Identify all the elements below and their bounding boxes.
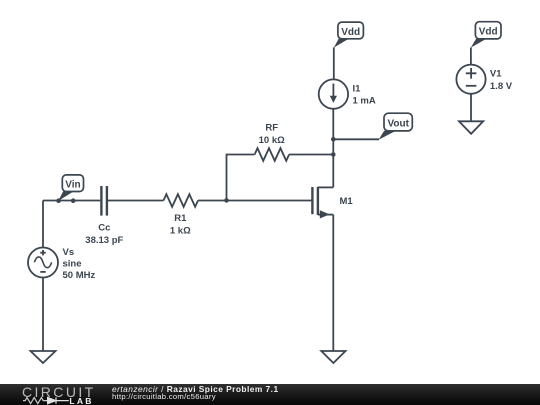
junction dot at RF/output node	[331, 152, 336, 157]
M1 source lead	[318, 214, 333, 216]
transistor M1 (NMOS)	[312, 187, 353, 219]
net flag Vout	[379, 113, 413, 140]
wire: input node down to Vs positive terminal	[42, 201, 44, 248]
current source I1	[319, 79, 376, 108]
wire: output node to Vout flag	[333, 138, 379, 140]
ground (M1 source)	[321, 351, 345, 363]
wire: M1 source down to ground	[332, 215, 334, 351]
junction dot at Vin tap	[56, 198, 61, 203]
wire: M1 drain up to I1 bottom	[332, 109, 334, 187]
Vin flag tail	[58, 191, 74, 201]
svg-text:1 kΩ: 1 kΩ	[170, 225, 191, 236]
capacitor Cc	[85, 186, 163, 246]
voltage source Vs	[28, 247, 95, 281]
M1 source arrow	[320, 210, 330, 218]
svg-text:Vout: Vout	[387, 119, 409, 130]
RF zigzag	[255, 148, 290, 161]
ground (V1)	[459, 121, 483, 134]
wire: V1 bottom to ground	[470, 94, 472, 122]
svg-text:10 kΩ: 10 kΩ	[259, 135, 285, 146]
net flag Vin	[58, 175, 83, 201]
Vout flag tail	[379, 131, 396, 140]
CircuitLab logo	[0, 384, 100, 405]
wire: Vdd flag to V1 top	[470, 48, 472, 65]
Vdd flag box	[338, 22, 364, 39]
Vdd flag tail	[334, 39, 349, 48]
footer credit text	[112, 385, 279, 393]
svg-text:Vin: Vin	[65, 180, 80, 191]
voltage source V1	[456, 65, 512, 94]
svg-text:1 mA: 1 mA	[353, 95, 376, 106]
resistor RF	[255, 122, 334, 161]
I1 circle	[319, 79, 348, 108]
V1 plus sign	[466, 68, 477, 79]
svg-text:R1: R1	[174, 213, 187, 224]
M1 channel bar	[317, 187, 319, 215]
I1 arrowhead	[330, 96, 337, 103]
junction dot at Vout tap	[331, 137, 336, 142]
wire: Vs bottom to ground	[42, 278, 44, 352]
wire: R1 to M1 gate	[198, 200, 312, 202]
Vs circle	[28, 248, 58, 278]
Vs sine wave	[34, 257, 51, 268]
svg-text:V1: V1	[490, 69, 502, 80]
wire: Vdd flag to I1 top	[333, 47, 335, 79]
I1 arrow shaft	[332, 84, 334, 98]
svg-text:sine: sine	[63, 258, 82, 269]
svg-text:1.8 V: 1.8 V	[490, 81, 513, 92]
svg-text:Vs: Vs	[63, 247, 75, 258]
svg-text:RF: RF	[265, 122, 278, 133]
Vin flag box	[62, 175, 83, 192]
logo diode	[45, 397, 68, 403]
net flag Vdd (over V1)	[471, 22, 501, 48]
footer bar	[0, 384, 540, 405]
svg-text:M1: M1	[340, 196, 354, 207]
Cc left plate	[100, 186, 102, 216]
net flag Vdd (over I1)	[334, 22, 364, 47]
svg-text:Vdd: Vdd	[341, 27, 360, 38]
V1 minus sign	[466, 85, 477, 87]
wire: gate node up to RF left lead	[227, 155, 255, 201]
M1 gate bar	[311, 187, 313, 214]
svg-text:LAB: LAB	[69, 396, 93, 405]
Vdd2 flag tail	[471, 39, 486, 48]
svg-text:50 MHz: 50 MHz	[63, 270, 96, 281]
M1 drain lead	[318, 186, 333, 188]
V1 circle	[456, 65, 485, 94]
logo resistor zigzag	[23, 398, 45, 404]
Vs plus sign	[40, 250, 45, 255]
wire: Cc right plate to R1	[108, 200, 164, 202]
R1 zigzag	[164, 194, 199, 207]
svg-text:38.13 pF: 38.13 pF	[85, 235, 123, 246]
wire: RF right lead to output node	[289, 154, 333, 156]
svg-text:Vdd: Vdd	[479, 27, 498, 38]
svg-text:I1: I1	[353, 83, 362, 94]
Vout flag box	[384, 113, 412, 131]
junction dot right of Vin tap	[71, 198, 76, 203]
ground (Vs)	[31, 351, 56, 363]
Vs minus sign	[40, 271, 45, 273]
wire: input node corner to capacitor left lead	[43, 200, 100, 202]
svg-text:Cc: Cc	[98, 222, 110, 233]
Cc right plate	[106, 186, 108, 216]
resistor R1	[164, 194, 199, 236]
Vdd2 flag box	[475, 22, 501, 39]
junction dot at R1/RF node	[224, 198, 229, 203]
